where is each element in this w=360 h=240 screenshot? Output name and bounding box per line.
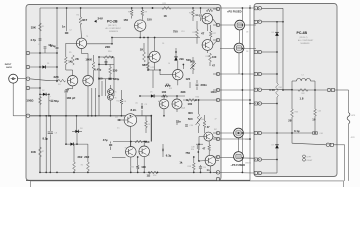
svg-text:680: 680 <box>142 63 147 67</box>
svg-text:PC-4B: PC-4B <box>297 31 308 35</box>
svg-text:JACK: JACK <box>6 66 12 69</box>
svg-text:R61: R61 <box>279 87 282 89</box>
svg-text:2K: 2K <box>75 57 79 61</box>
svg-text:68: 68 <box>148 155 150 157</box>
svg-text:500: 500 <box>188 117 193 121</box>
svg-text:R1: R1 <box>42 26 44 28</box>
svg-text:330µ: 330µ <box>113 77 120 81</box>
svg-text:−SPK: −SPK <box>350 137 355 139</box>
svg-text:+SPK: +SPK <box>351 115 356 117</box>
svg-text:R47: R47 <box>214 129 217 131</box>
svg-text:2N3055: 2N3055 <box>245 163 251 165</box>
svg-text:1K: 1K <box>68 59 72 63</box>
svg-text:R4: R4 <box>58 84 60 86</box>
svg-text:NUMBERS: NUMBERS <box>109 31 119 33</box>
svg-text:100: 100 <box>162 90 167 94</box>
svg-text:50µ: 50µ <box>54 99 59 103</box>
svg-text:R5: R5 <box>81 165 83 167</box>
svg-text:D5: D5 <box>150 92 152 94</box>
svg-text:100: 100 <box>141 165 146 169</box>
svg-text:18: 18 <box>164 14 168 18</box>
svg-text:330: 330 <box>113 69 118 73</box>
svg-text:1n: 1n <box>195 13 199 17</box>
svg-text:C13: C13 <box>181 31 184 33</box>
svg-text:2K2: 2K2 <box>84 155 89 159</box>
svg-text:D2: D2 <box>42 90 44 92</box>
svg-text:−PS FUSED: −PS FUSED <box>231 163 246 167</box>
svg-text:T6: T6 <box>115 98 117 100</box>
svg-text:R10: R10 <box>108 51 111 53</box>
svg-text:R7: R7 <box>42 151 44 153</box>
svg-text:D1: D1 <box>47 63 49 65</box>
svg-text:4K7: 4K7 <box>82 18 88 22</box>
svg-text:75: 75 <box>148 124 150 126</box>
svg-text:R8: R8 <box>128 12 130 14</box>
svg-text:184: 184 <box>123 101 126 103</box>
svg-text:0.47µ: 0.47µ <box>94 68 101 72</box>
svg-text:47µ: 47µ <box>103 138 108 142</box>
svg-text:(SN 30-7): (SN 30-7) <box>300 37 308 39</box>
svg-text:500: 500 <box>186 58 191 62</box>
svg-text:C45: C45 <box>318 111 321 113</box>
svg-text:200n: 200n <box>201 83 208 87</box>
svg-text:C17: C17 <box>115 117 118 119</box>
svg-text:R14: R14 <box>117 101 120 103</box>
svg-text:NUMBERS: NUMBERS <box>301 43 311 45</box>
svg-text:ALL COMPONENT: ALL COMPONENT <box>298 39 314 42</box>
svg-text:R58: R58 <box>188 166 191 168</box>
svg-text:8.2n: 8.2n <box>131 108 137 112</box>
svg-text:300: 300 <box>188 111 193 115</box>
svg-text:(SN CM 7): (SN CM 7) <box>108 25 117 27</box>
svg-text:47: 47 <box>215 118 217 120</box>
svg-text:150: 150 <box>147 17 152 21</box>
svg-text:L3: L3 <box>302 75 304 77</box>
svg-text:C9: C9 <box>145 104 147 106</box>
svg-text:33K: 33K <box>31 26 37 30</box>
svg-text:PC-2B: PC-2B <box>107 20 118 24</box>
svg-text:R26: R26 <box>193 32 196 34</box>
svg-text:C3: C3 <box>38 44 40 46</box>
svg-text:INPUT: INPUT <box>5 64 12 66</box>
svg-text:A4: A4 <box>158 100 160 103</box>
svg-text:D8: D8 <box>272 32 274 34</box>
svg-text:R27: R27 <box>213 33 216 35</box>
svg-text:C2: C2 <box>69 30 71 32</box>
svg-text:R5: R5 <box>69 52 71 54</box>
svg-text:1.8: 1.8 <box>300 96 304 100</box>
svg-text:22n: 22n <box>179 57 184 61</box>
svg-text:8.2µ: 8.2µ <box>43 137 49 141</box>
svg-text:0.18: 0.18 <box>269 88 275 92</box>
svg-text:R50: R50 <box>131 166 134 168</box>
svg-text:22K: 22K <box>54 75 60 79</box>
svg-text:R45: R45 <box>191 69 194 71</box>
svg-text:R33: R33 <box>169 88 172 90</box>
svg-text:100Ω: 100Ω <box>26 99 34 103</box>
svg-text:R21: R21 <box>163 3 166 5</box>
svg-text:22K: 22K <box>105 45 111 49</box>
svg-text:1n: 1n <box>62 25 66 29</box>
svg-text:39K: 39K <box>181 90 186 94</box>
svg-text:1K: 1K <box>140 47 144 51</box>
svg-text:1k: 1k <box>179 160 183 164</box>
svg-text:R40: R40 <box>201 119 204 121</box>
svg-text:+PS FUSED: +PS FUSED <box>227 9 242 13</box>
svg-text:2K2: 2K2 <box>78 155 83 159</box>
svg-text:180 pF: 180 pF <box>67 96 76 100</box>
svg-text:4.7µ: 4.7µ <box>30 38 36 42</box>
svg-text:D3: D3 <box>80 128 82 130</box>
svg-text:T5: T5 <box>115 92 117 94</box>
svg-text:R62: R62 <box>302 93 305 95</box>
svg-text:150: 150 <box>123 18 128 22</box>
svg-text:28: 28 <box>288 118 292 122</box>
svg-text:RIGHT: RIGHT <box>307 160 314 162</box>
svg-text:C46: C46 <box>320 133 323 135</box>
svg-text:14: 14 <box>168 63 170 65</box>
svg-text:C30: C30 <box>190 125 193 127</box>
svg-text:0.1µ: 0.1µ <box>294 129 300 133</box>
svg-text:12n: 12n <box>176 120 181 124</box>
svg-text:100: 100 <box>212 55 217 59</box>
svg-text:ALL COMPONENT: ALL COMPONENT <box>106 27 122 30</box>
svg-text:T3: T3 <box>86 36 88 38</box>
svg-text:0.1µ: 0.1µ <box>50 44 56 48</box>
svg-text:100n: 100n <box>211 90 217 94</box>
svg-text:R36: R36 <box>196 97 199 99</box>
svg-text:C8: C8 <box>55 133 57 135</box>
svg-text:R63: R63 <box>295 112 298 114</box>
svg-text:10: 10 <box>312 117 316 121</box>
svg-text:100: 100 <box>188 102 193 106</box>
svg-text:10K: 10K <box>31 150 37 154</box>
svg-text:6.3µ: 6.3µ <box>166 154 172 158</box>
svg-text:D9: D9 <box>272 145 274 147</box>
svg-text:750: 750 <box>173 29 178 33</box>
svg-text:100K: 100K <box>85 57 92 61</box>
svg-text:4T: 4T <box>201 31 205 35</box>
svg-text:T8: T8 <box>125 148 127 150</box>
svg-text:120: 120 <box>186 77 191 81</box>
svg-text:C6: C6 <box>162 43 164 45</box>
svg-text:R54: R54 <box>191 149 194 151</box>
svg-text:R2: R2 <box>77 15 79 17</box>
svg-text:R38: R38 <box>206 56 209 58</box>
svg-text:R52: R52 <box>153 175 156 177</box>
svg-text:750: 750 <box>185 151 190 155</box>
svg-text:24V: 24V <box>98 17 103 21</box>
svg-text:C52: C52 <box>203 167 206 169</box>
svg-text:R24: R24 <box>189 13 192 15</box>
svg-text:R9: R9 <box>145 12 147 14</box>
svg-text:1n: 1n <box>207 168 210 172</box>
